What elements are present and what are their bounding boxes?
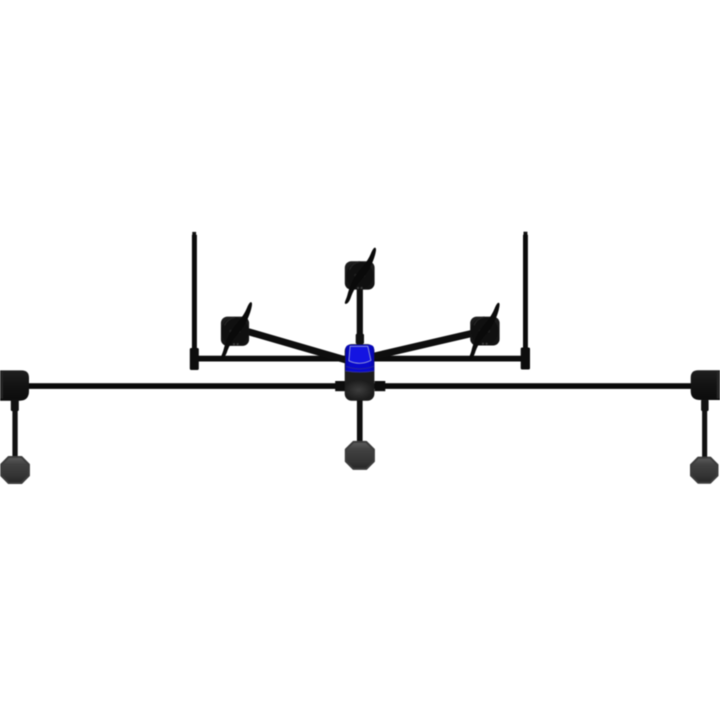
top propeller <box>340 247 381 305</box>
right leg <box>701 400 709 459</box>
right mast <box>521 232 530 370</box>
left motor <box>221 317 249 346</box>
right block edge highlight <box>717 372 720 399</box>
main landing bar <box>0 383 720 389</box>
left diagonal arm <box>247 331 347 360</box>
left foot <box>1 457 29 483</box>
top arm <box>356 286 364 345</box>
right bar stub <box>375 381 386 391</box>
right diagonal arm <box>373 333 473 356</box>
left end block <box>0 370 29 400</box>
right end block <box>691 370 720 400</box>
fuselage <box>345 344 375 401</box>
center foot <box>346 442 374 469</box>
top motor <box>345 261 375 289</box>
canopy <box>345 345 374 372</box>
left bar stub <box>335 381 345 391</box>
left block edge highlight <box>0 372 3 399</box>
left mast <box>190 232 199 370</box>
upper crossbar <box>192 356 528 362</box>
right propeller <box>464 302 504 361</box>
right motor <box>470 317 499 346</box>
fuselage sheen <box>344 380 374 400</box>
left leg <box>11 400 19 459</box>
right foot <box>691 458 718 483</box>
center leg <box>357 401 363 443</box>
left propeller <box>216 301 256 359</box>
